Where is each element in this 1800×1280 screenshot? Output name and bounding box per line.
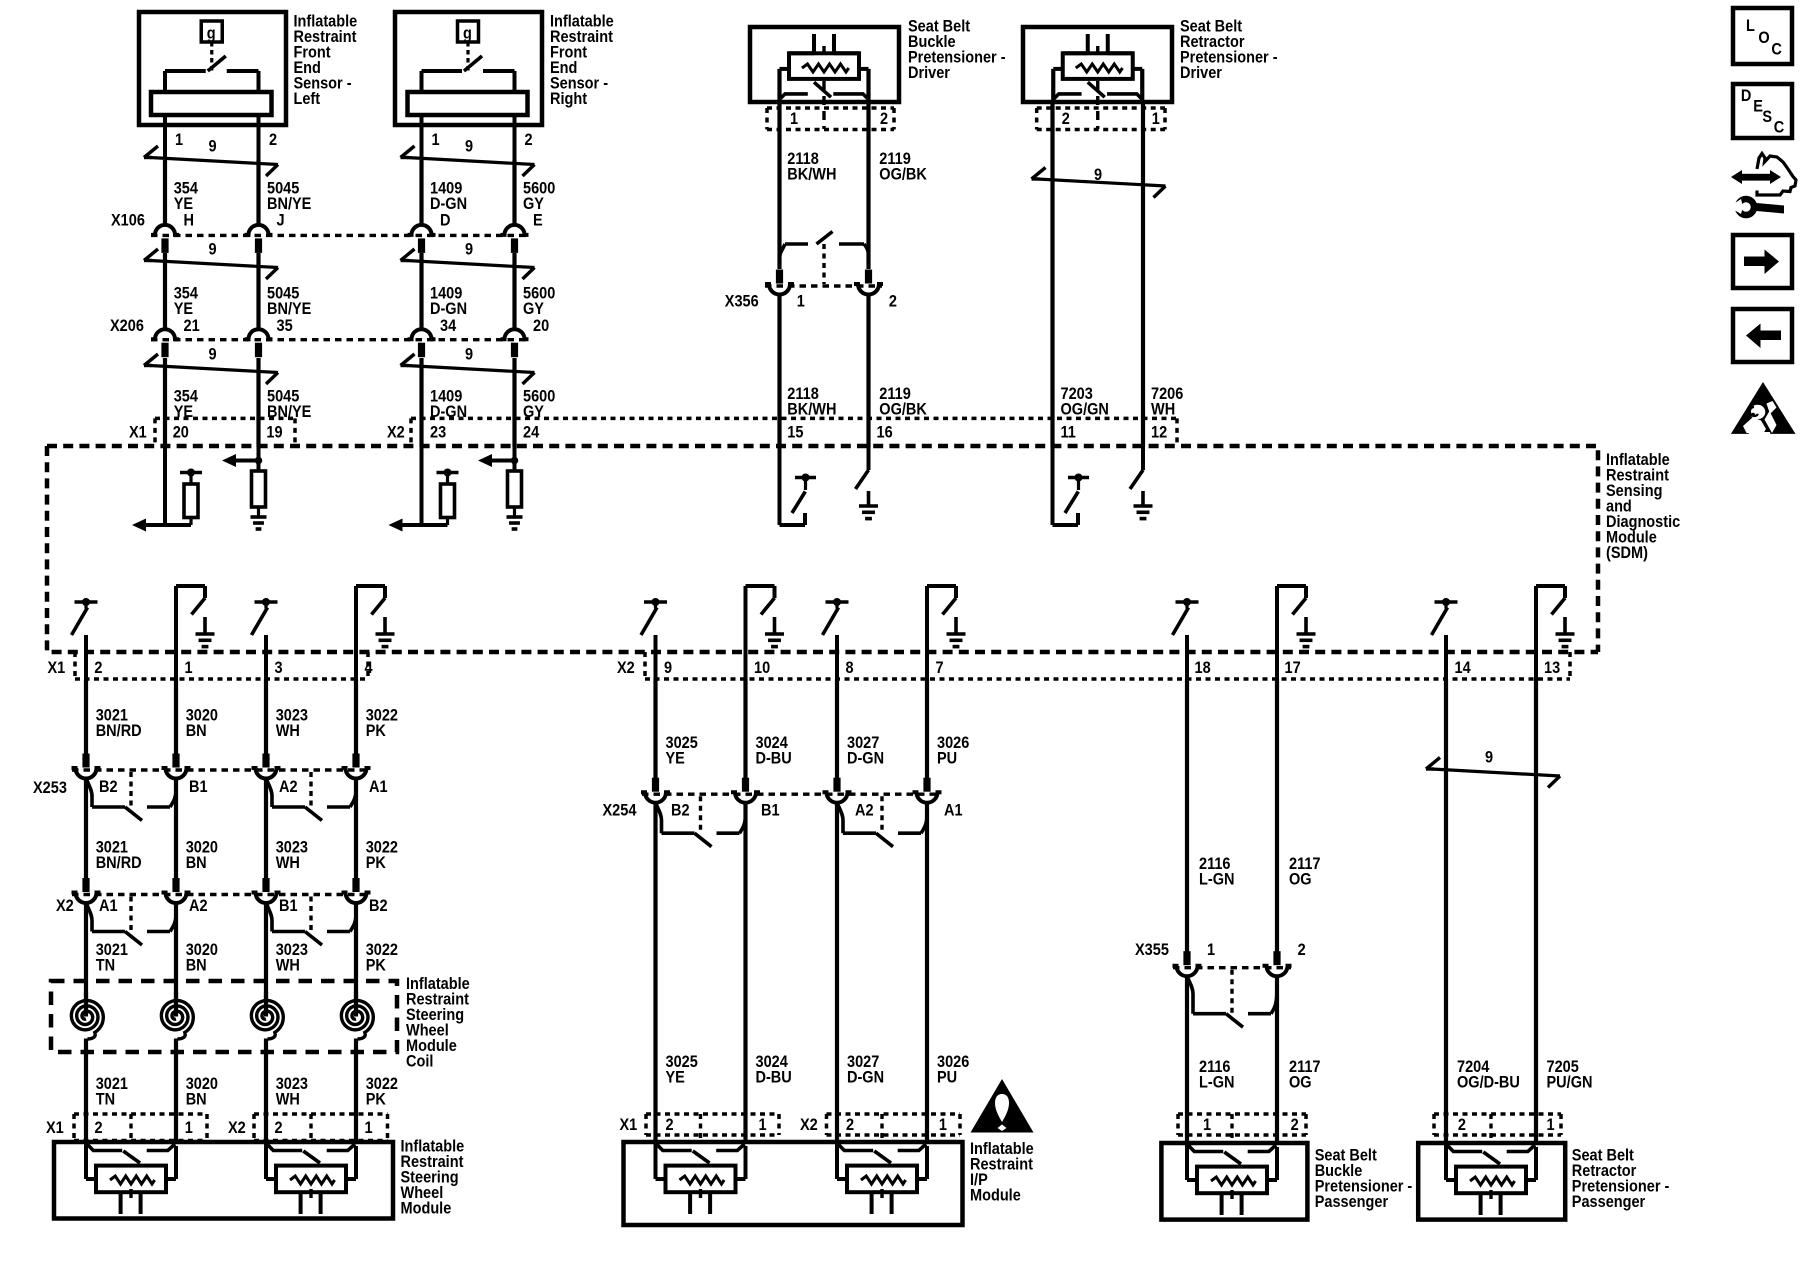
svg-text:Coil: Coil	[406, 1053, 433, 1071]
svg-text:14: 14	[1455, 659, 1471, 677]
SDM internal driver at pin 1	[176, 586, 215, 680]
squib element of buckle pretensioner driver	[780, 34, 869, 129]
wire 3026 PU seg2	[925, 803, 929, 1143]
svg-text:X253: X253	[33, 779, 67, 797]
svg-text:12: 12	[1151, 424, 1167, 442]
svg-text:9: 9	[1094, 166, 1102, 184]
SDM internal circuit at pin 20 (resistor + arrow)	[132, 447, 202, 532]
connector X254 terminal A2	[823, 778, 852, 803]
svg-text:H: H	[184, 212, 194, 230]
icon forward arrow	[1744, 257, 1765, 267]
svg-text:E: E	[533, 212, 543, 230]
wire 2117 OG seg1	[1275, 679, 1279, 952]
coil spiral 1	[71, 1001, 103, 1040]
svg-text:X254: X254	[603, 802, 637, 820]
SDM internal circuit at pin 23 (resistor + arrow)	[389, 447, 459, 532]
svg-text:OG/BK: OG/BK	[879, 401, 927, 419]
connector X254 terminal A1	[913, 778, 942, 803]
connector X206 terminal 34	[408, 329, 436, 357]
svg-text:Passenger: Passenger	[1572, 1193, 1645, 1211]
component box: Seat Belt Retractor Pretensioner - Driver	[1023, 27, 1172, 102]
svg-text:L: L	[1746, 17, 1755, 35]
connector X355 terminal 1	[1173, 951, 1202, 976]
svg-text:9: 9	[1485, 749, 1493, 767]
svg-text:21: 21	[184, 317, 200, 335]
svg-text:OG/D-BU: OG/D-BU	[1457, 1074, 1520, 1092]
svg-text:B1: B1	[279, 897, 298, 915]
connector X254 dashed line	[642, 793, 940, 796]
wire 2119 OG/BK seg1	[866, 102, 870, 269]
wire 5600 GY seg1	[512, 160, 516, 226]
icon: forward arrow box	[1733, 235, 1792, 288]
twisted-pair symbol (9 twists) left sensor	[144, 146, 278, 176]
svg-text:C: C	[1774, 119, 1784, 137]
svg-text:9: 9	[209, 346, 217, 364]
svg-text:X2: X2	[56, 897, 74, 915]
SDM internal driver at pin 2	[72, 598, 98, 680]
SDM internal driver at pin 17	[1277, 586, 1316, 680]
svg-text:20: 20	[173, 424, 189, 442]
svg-text:g: g	[463, 25, 472, 43]
svg-text:PK: PK	[366, 957, 387, 975]
wire 2118 BK/WH seg1	[777, 102, 781, 269]
svg-text:D-GN: D-GN	[847, 750, 884, 768]
svg-text:2: 2	[889, 293, 897, 311]
shorting bar below X253 pair A2-A1	[266, 772, 356, 821]
svg-text:X206: X206	[110, 317, 144, 335]
wire 3020 BN seg2	[174, 779, 178, 878]
wire 7203 OG/GN	[1050, 102, 1054, 447]
wire 7205 PU/GN	[1534, 679, 1538, 1144]
connector X355 dashed line	[1173, 966, 1291, 969]
svg-text:2: 2	[525, 131, 533, 149]
twisted-pair symbol below X206 left pair	[144, 354, 278, 384]
wire 2116 L-GN seg1	[1185, 679, 1189, 952]
connector X356 terminal 1	[765, 270, 794, 295]
shorting bar below X254 pair B2-B1	[656, 796, 746, 847]
wire 3025 YE seg2	[653, 803, 657, 1143]
svg-text:9: 9	[209, 138, 217, 156]
svg-text:WH: WH	[276, 854, 300, 872]
svg-text:2: 2	[846, 1116, 854, 1134]
svg-text:1: 1	[939, 1116, 947, 1134]
svg-text:D-BU: D-BU	[756, 1069, 792, 1087]
wire 3020 BN seg4	[174, 1052, 178, 1142]
svg-text:BN/YE: BN/YE	[267, 195, 311, 213]
svg-text:X1: X1	[129, 424, 147, 442]
svg-text:GY: GY	[523, 300, 545, 318]
steering wheel module X2 pin box	[254, 1114, 388, 1141]
svg-text:OG: OG	[1289, 1074, 1312, 1092]
SDM internal driver at pin 11	[1053, 447, 1090, 525]
svg-text:2: 2	[1298, 941, 1306, 959]
connector X254 terminal B1	[731, 778, 760, 803]
I/P module X1 pin box	[646, 1114, 779, 1135]
icon: LOC box	[1733, 8, 1792, 64]
wire 1409 D-GN seg1	[419, 160, 423, 226]
wire 3025 YE seg1	[653, 679, 657, 778]
svg-text:2: 2	[95, 1119, 103, 1137]
twisted-pair symbol (9 twists) right sensor	[401, 146, 535, 176]
svg-text:BN: BN	[186, 854, 207, 872]
svg-text:7: 7	[936, 659, 944, 677]
SDM X1 top pin box	[155, 418, 295, 446]
wire 354 YE seg3	[163, 358, 167, 447]
svg-text:PK: PK	[366, 722, 387, 740]
wire 3027 D-GN seg2	[835, 803, 839, 1143]
center dash X2 steering connector	[309, 1114, 312, 1142]
SDM internal driver at pin 16	[856, 447, 879, 519]
svg-text:Passenger: Passenger	[1315, 1193, 1388, 1211]
svg-text:X2: X2	[800, 1116, 818, 1134]
svg-text:BK/WH: BK/WH	[787, 166, 836, 184]
svg-text:D: D	[440, 212, 450, 230]
svg-text:4: 4	[365, 659, 373, 677]
svg-text:B2: B2	[99, 778, 118, 796]
svg-text:A2: A2	[189, 897, 208, 915]
squib element of retractor pretensioner driver	[1053, 34, 1142, 129]
svg-text:J: J	[277, 212, 285, 230]
component box: Inflatable Restraint I/P Module	[624, 1142, 963, 1225]
SDM internal driver at pin 18	[1173, 598, 1199, 680]
svg-text:B1: B1	[761, 802, 780, 820]
svg-text:WH: WH	[276, 722, 300, 740]
squib circuit in retractor pretensioner passenger	[1446, 1143, 1536, 1215]
svg-text:1: 1	[1152, 110, 1160, 128]
svg-text:E: E	[1753, 98, 1763, 116]
svg-text:PU: PU	[937, 750, 957, 768]
svg-text:9: 9	[664, 659, 672, 677]
wire 3021 BN/RD seg1	[84, 679, 88, 754]
svg-text:BN/YE: BN/YE	[267, 300, 311, 318]
wire 2118 BK/WH seg2	[777, 295, 781, 448]
svg-text:2: 2	[94, 659, 102, 677]
shorting bar below X254 pair A2-A1	[837, 796, 927, 847]
twisted-pair symbol below X106 left pair	[144, 249, 278, 279]
svg-text:2: 2	[666, 1116, 674, 1134]
connector X253 dashed line	[72, 768, 370, 771]
svg-text:B2: B2	[671, 802, 690, 820]
svg-text:PK: PK	[366, 854, 387, 872]
svg-text:2: 2	[269, 131, 277, 149]
SDM X1 bottom pin box	[75, 652, 368, 679]
pin box of buckle pretensioner driver	[767, 108, 894, 130]
SDM X2 top pin box	[411, 418, 1177, 446]
svg-text:OG/BK: OG/BK	[879, 166, 927, 184]
svg-text:X106: X106	[111, 212, 145, 230]
svg-text:11: 11	[1061, 424, 1077, 442]
connector X253 terminal B2	[72, 754, 101, 779]
SDM internal driver at pin 7	[927, 586, 966, 680]
svg-text:1: 1	[185, 1119, 193, 1137]
connector X2 terminal A2	[162, 878, 191, 903]
SDM internal driver at pin 4	[356, 586, 395, 680]
wire 3027 D-GN seg1	[835, 679, 839, 778]
svg-text:15: 15	[787, 424, 803, 442]
svg-text:1: 1	[1203, 1116, 1211, 1134]
wire 3022 PK seg2	[354, 779, 358, 878]
svg-text:1: 1	[797, 293, 805, 311]
svg-text:A2: A2	[279, 778, 298, 796]
svg-text:BN/RD: BN/RD	[96, 722, 142, 740]
svg-text:A1: A1	[369, 778, 388, 796]
svg-text:24: 24	[523, 424, 539, 442]
connector X106 dashed line	[151, 234, 528, 237]
connector X2 (column) dashed line	[72, 893, 370, 896]
wire 7204 OG/D-BU	[1444, 679, 1448, 1144]
svg-text:OG/GN: OG/GN	[1061, 401, 1109, 419]
svg-text:16: 16	[877, 424, 893, 442]
svg-text:Right: Right	[550, 90, 587, 108]
connector X206 terminal 35	[245, 329, 273, 357]
svg-text:17: 17	[1285, 659, 1301, 677]
svg-text:A1: A1	[944, 802, 963, 820]
wire 3024 D-BU seg1	[743, 679, 747, 778]
svg-text:18: 18	[1195, 659, 1211, 677]
svg-text:S: S	[1762, 108, 1772, 126]
wire 354 YE seg2	[163, 253, 167, 330]
icon: car outline with double arrow and wrench	[1731, 170, 1742, 184]
shorting bar below X2 pair A1-A2	[86, 897, 176, 946]
connector X2 terminal B1	[252, 878, 281, 903]
SDM internal circuit at pin 19 (resistor to ground)	[222, 447, 267, 529]
svg-text:1: 1	[1207, 941, 1215, 959]
svg-text:1: 1	[175, 131, 183, 149]
svg-text:10: 10	[754, 659, 770, 677]
retractor pretensioner passenger pin box	[1434, 1114, 1561, 1135]
wire 3021 TN seg3	[84, 904, 88, 1000]
wire 3022 PK seg3	[354, 904, 358, 1000]
svg-text:GY: GY	[523, 195, 545, 213]
connector X106 terminal D	[408, 225, 436, 253]
svg-text:Left: Left	[294, 90, 321, 108]
wire 3024 D-BU seg2	[743, 803, 747, 1143]
svg-text:X355: X355	[1135, 941, 1169, 959]
svg-text:WH: WH	[276, 1091, 300, 1109]
wire 7206 WH	[1141, 102, 1145, 447]
svg-text:2: 2	[1291, 1116, 1299, 1134]
svg-text:1: 1	[790, 110, 798, 128]
connector X356 terminal 2	[854, 270, 883, 295]
wire 354 YE seg1	[163, 160, 167, 226]
wire 3023 WH seg3	[264, 904, 268, 1000]
connector X355 terminal 2	[1263, 951, 1292, 976]
shorting bar below X355	[1187, 970, 1277, 1027]
svg-text:PK: PK	[366, 1091, 387, 1109]
warning triangle (exclamation) near I/P module	[971, 1079, 1034, 1133]
SDM internal circuit at pin 24 (resistor to ground)	[478, 447, 523, 529]
wire 3023 WH seg2	[264, 779, 268, 878]
svg-text:D: D	[1741, 87, 1751, 105]
svg-text:1: 1	[432, 131, 440, 149]
connector X253 terminal B1	[162, 754, 191, 779]
center dash X1 I/P connector	[699, 1114, 702, 1142]
svg-text:13: 13	[1544, 659, 1560, 677]
connector X106 terminal E	[501, 225, 529, 253]
svg-text:WH: WH	[1151, 401, 1175, 419]
svg-text:BN: BN	[186, 1091, 207, 1109]
svg-text:BN: BN	[186, 722, 207, 740]
svg-text:C: C	[1771, 41, 1781, 59]
svg-text:1: 1	[185, 659, 193, 677]
svg-text:D-GN: D-GN	[430, 195, 467, 213]
icon: DESC box	[1733, 84, 1792, 138]
svg-text:9: 9	[209, 241, 217, 259]
wire 2116 L-GN seg2	[1185, 977, 1189, 1145]
connector X356 dashed line	[765, 284, 882, 287]
center dash buckle passenger connector	[1230, 1114, 1233, 1142]
wire 5045 BN/YE seg3	[256, 358, 260, 447]
connector X2 terminal A1	[72, 878, 101, 903]
component box: Inflatable Restraint Steering Wheel Module	[54, 1142, 393, 1219]
wire 2119 OG/BK seg2	[866, 295, 870, 448]
shorting bar below X2 pair B1-B2	[266, 897, 356, 946]
svg-text:OG: OG	[1289, 871, 1312, 889]
svg-text:34: 34	[440, 317, 456, 335]
wire 3020 BN seg1	[174, 679, 178, 754]
svg-text:WH: WH	[276, 957, 300, 975]
coil spiral 4	[341, 1001, 373, 1040]
SDM internal driver at pin 12	[1130, 447, 1153, 519]
coil module dashed box (Inflatable Restraint Steering Wheel Module Coil)	[51, 981, 397, 1052]
icon: seat occupant warning triangle	[1731, 382, 1796, 434]
center dash X1 steering connector	[129, 1114, 132, 1142]
coil spiral 3	[251, 1001, 283, 1040]
I/P module X2 pin box	[827, 1114, 961, 1135]
SDM internal driver at pin 10	[746, 586, 785, 680]
svg-text:(SDM): (SDM)	[1606, 544, 1648, 562]
svg-text:X356: X356	[725, 293, 759, 311]
twisted-pair symbol retractor driver pair	[1032, 168, 1166, 198]
svg-text:9: 9	[465, 346, 473, 364]
svg-text:D-BU: D-BU	[756, 750, 792, 768]
connector X253 terminal A1	[342, 754, 371, 779]
svg-text:YE: YE	[666, 750, 685, 768]
svg-text:YE: YE	[174, 195, 193, 213]
svg-text:20: 20	[533, 317, 549, 335]
svg-text:PU/GN: PU/GN	[1547, 1074, 1593, 1092]
shorting bar below X253 pair B2-B1	[86, 772, 176, 821]
svg-text:TN: TN	[96, 1091, 115, 1109]
svg-text:2: 2	[1458, 1116, 1466, 1134]
svg-text:2: 2	[275, 1119, 283, 1137]
svg-text:X2: X2	[228, 1119, 246, 1137]
wire 2117 OG seg2	[1275, 977, 1279, 1145]
component box: Inflatable Restraint Front End Sensor - Left	[139, 12, 286, 168]
steering wheel module X1 pin box	[74, 1114, 207, 1141]
SDM module dashed box (Inflatable Restraint Sensing and Diagnostic Module)	[47, 446, 1598, 652]
buckle pretensioner passenger pin box	[1178, 1114, 1306, 1135]
svg-text:B1: B1	[189, 778, 208, 796]
connector X206 terminal 21	[151, 329, 179, 357]
svg-text:Driver: Driver	[908, 64, 950, 82]
SDM internal driver at pin 8	[823, 598, 849, 680]
svg-text:Module: Module	[401, 1200, 452, 1218]
wire 5600 GY seg3	[512, 358, 516, 447]
connector X253 terminal A2	[252, 754, 281, 779]
twisted-pair symbol below X206 right pair	[401, 354, 535, 384]
wire 3020 BN seg3	[174, 904, 178, 1000]
svg-text:D-GN: D-GN	[430, 300, 467, 318]
svg-text:X1: X1	[48, 659, 66, 677]
center dash X2 I/P connector	[880, 1114, 883, 1142]
svg-text:TN: TN	[96, 957, 115, 975]
connector X206 terminal 20	[501, 329, 529, 357]
SDM internal driver at pin 3	[252, 598, 278, 680]
connector X2 terminal B2	[342, 878, 371, 903]
wire 1409 D-GN seg2	[419, 253, 423, 330]
SDM internal driver at pin 15	[780, 447, 817, 525]
twisted-pair symbol 7204/7205 pair	[1426, 758, 1560, 788]
SDM internal driver at pin 13	[1536, 586, 1575, 680]
SDM X2 bottom pin box	[645, 652, 1570, 679]
svg-text:1: 1	[759, 1116, 767, 1134]
svg-text:23: 23	[430, 424, 446, 442]
wire 3023 WH seg4	[264, 1052, 268, 1142]
icon back arrow	[1760, 331, 1781, 341]
wire 3021 BN/RD seg2	[84, 779, 88, 878]
svg-text:9: 9	[465, 241, 473, 259]
svg-text:YE: YE	[666, 1069, 685, 1087]
squib circuit in buckle pretensioner passenger	[1187, 1143, 1277, 1215]
svg-text:BN/RD: BN/RD	[96, 854, 142, 872]
svg-text:D-GN: D-GN	[847, 1069, 884, 1087]
coil spiral 2	[161, 1001, 193, 1040]
svg-text:8: 8	[846, 659, 854, 677]
icon: back arrow box	[1733, 309, 1792, 362]
connector X254 terminal B2	[641, 778, 670, 803]
wire 3026 PU seg1	[925, 679, 929, 778]
wire 5600 GY seg2	[512, 253, 516, 330]
svg-text:g: g	[207, 25, 216, 43]
svg-text:BN: BN	[186, 957, 207, 975]
svg-text:A2: A2	[855, 802, 874, 820]
svg-text:BK/WH: BK/WH	[787, 401, 836, 419]
twisted-pair symbol below X106 right pair	[401, 249, 535, 279]
svg-text:35: 35	[277, 317, 293, 335]
svg-text:X1: X1	[46, 1119, 64, 1137]
wire 1409 D-GN seg3	[419, 358, 423, 447]
svg-text:PU: PU	[937, 1069, 957, 1087]
SDM internal driver at pin 14	[1432, 598, 1458, 680]
svg-text:2: 2	[1062, 110, 1070, 128]
svg-text:2: 2	[880, 110, 888, 128]
svg-text:19: 19	[266, 424, 282, 442]
svg-text:Driver: Driver	[1180, 64, 1222, 82]
component box: Inflatable Restraint Front End Sensor - Right	[395, 12, 542, 168]
wire 5045 BN/YE seg1	[256, 160, 260, 226]
wire 3023 WH seg1	[264, 679, 268, 754]
svg-text:1: 1	[1547, 1116, 1555, 1134]
svg-text:9: 9	[465, 138, 473, 156]
svg-text:1: 1	[365, 1119, 373, 1137]
svg-text:Module: Module	[970, 1187, 1021, 1205]
SDM internal driver at pin 9	[641, 598, 667, 680]
svg-text:YE: YE	[174, 300, 193, 318]
svg-text:O: O	[1758, 29, 1769, 47]
component box: Seat Belt Buckle Pretensioner - Passenger	[1161, 1143, 1307, 1220]
svg-text:3: 3	[275, 659, 283, 677]
connector X206 dashed line	[151, 338, 528, 341]
center dash retractor passenger connector	[1489, 1114, 1492, 1142]
shorting bar above connector X356	[780, 232, 869, 285]
svg-text:X2: X2	[617, 659, 635, 677]
svg-text:L-GN: L-GN	[1199, 1074, 1234, 1092]
svg-text:X2: X2	[387, 424, 405, 442]
svg-text:X1: X1	[620, 1116, 638, 1134]
svg-text:A1: A1	[99, 897, 118, 915]
wire 5045 BN/YE seg2	[256, 253, 260, 330]
